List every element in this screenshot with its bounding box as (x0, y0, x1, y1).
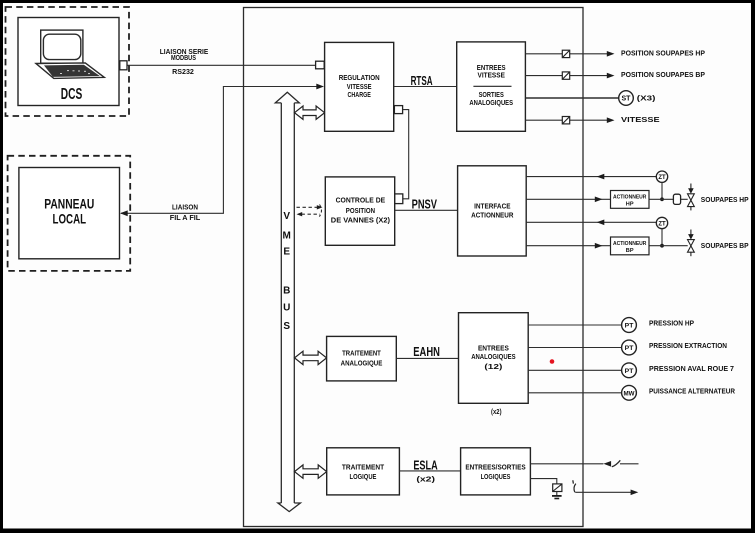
wire ST (x3) (525, 97, 618, 99)
svg-text:(x2): (x2) (416, 475, 436, 484)
wire PUISSANCE ALTERNATEUR (528, 392, 621, 394)
wire PNSV (395, 209, 458, 211)
svg-text:POSITION SOUPAPES BP: POSITION SOUPAPES BP (621, 70, 705, 79)
svg-text:PT: PT (625, 323, 635, 330)
enclosure PANNEAU LOCAL (dashed) (8, 156, 131, 271)
ground (556, 492, 558, 496)
connector tab REGULATION right (394, 106, 402, 114)
valve SOUPAPES HP (688, 184, 695, 211)
svg-text:POSITION: POSITION (346, 206, 375, 215)
svg-text:VITESSE: VITESSE (621, 115, 660, 124)
box TRAITEMENT LOGIQUE (327, 448, 400, 495)
svg-text:EAHN: EAHN (413, 344, 440, 359)
wire ZT BP drop (661, 229, 663, 246)
transmitter PT 3 (622, 363, 637, 378)
arrowhead into PANNEAU LOCAL (120, 210, 128, 216)
wire REGULATION tab to CONTROLE tab (403, 110, 409, 199)
label LIAISON SERIE MODBUS RS232 (160, 47, 209, 76)
bus link dashed arrows (to CONTROLE) (297, 205, 322, 217)
svg-text:SOUPAPES HP: SOUPAPES HP (701, 195, 749, 204)
wire ZT HP drop (661, 182, 663, 199)
box ENTREES VITESSE / SORTIES ANALOGIQUES (457, 42, 526, 131)
svg-text:ACTIONNEUR: ACTIONNEUR (613, 241, 647, 247)
valve SOUPAPES BP (688, 230, 695, 257)
svg-text:TRAITEMENT: TRAITEMENT (342, 463, 385, 472)
wire LIAISON FIL A FIL (121, 87, 317, 214)
svg-text:U: U (283, 302, 290, 313)
svg-text:PT: PT (625, 368, 635, 375)
wire actionneur BP (526, 245, 688, 247)
transmitter ZT HP (656, 171, 667, 182)
wire POSITION SOUPAPES BP (525, 75, 607, 77)
wire ZT HP feedback (526, 176, 656, 178)
wire logic output to relay (530, 479, 556, 484)
transmitter ZT BP (656, 217, 667, 228)
wire RTSA (394, 86, 457, 88)
svg-text:PANNEAU: PANNEAU (44, 197, 94, 212)
svg-text:DE VANNES (X2): DE VANNES (X2) (331, 216, 391, 225)
svg-text:ANALOGIQUES: ANALOGIQUES (469, 98, 513, 107)
svg-text:LOGIQUE: LOGIQUE (350, 472, 377, 481)
relay contact (572, 480, 575, 483)
wire PRESSION AVAL ROUE 7 (528, 369, 621, 371)
connector tab REGULATION left (316, 61, 325, 69)
wire ZT BP feedback (526, 221, 656, 223)
svg-text:DCS: DCS (61, 86, 83, 103)
svg-text:PRESSION AVAL ROUE 7: PRESSION AVAL ROUE 7 (649, 364, 734, 373)
transmitter ST (619, 91, 634, 106)
svg-text:ACTIONNEUR: ACTIONNEUR (613, 194, 647, 200)
wire POSITION SOUPAPES HP (525, 53, 607, 55)
svg-text:RS232: RS232 (172, 67, 194, 76)
box ENTREES ANALOGIQUES (12) (459, 313, 529, 404)
box TRAITEMENT ANALOGIQUE (327, 336, 397, 381)
isolator square 3 (562, 117, 569, 124)
box DCS (18, 18, 119, 106)
svg-text:ACTIONNEUR: ACTIONNEUR (471, 211, 514, 220)
svg-text:PNSV: PNSV (412, 197, 438, 212)
wire VITESSE (525, 119, 607, 121)
connector tab CONTROLE right (395, 194, 403, 204)
box ACTIONNEUR BP (611, 237, 650, 255)
svg-text:(12): (12) (484, 362, 503, 371)
wire EAHN (396, 357, 458, 359)
svg-text:VITESSE: VITESSE (478, 71, 506, 80)
box CONTROLE DE POSITION DE VANNES (325, 177, 394, 245)
main cabinet box (244, 8, 584, 527)
transmitter PT 1 (622, 318, 637, 333)
svg-text:ZT: ZT (658, 175, 666, 181)
isolator square 1 (562, 50, 569, 57)
svg-text:ESLA: ESLA (413, 457, 438, 472)
connector tab DCS (120, 61, 127, 70)
svg-text:POSITION SOUPAPES HP: POSITION SOUPAPES HP (621, 48, 705, 57)
box ACTIONNEUR HP (611, 191, 650, 209)
computer icon (36, 30, 104, 78)
VME bus arrow (275, 92, 300, 511)
svg-text:ANALOGIQUES: ANALOGIQUES (471, 352, 516, 361)
svg-text:PRESSION EXTRACTION: PRESSION EXTRACTION (649, 341, 727, 350)
svg-text:BP: BP (626, 248, 634, 254)
svg-text:RTSA: RTSA (411, 73, 433, 88)
arrowhead into REGULATION (316, 84, 324, 90)
box INTERFACE ACTIONNEUR (458, 166, 527, 256)
svg-text:PRESSION HP: PRESSION HP (649, 319, 694, 328)
svg-text:CONTROLE DE: CONTROLE DE (336, 196, 386, 205)
isolator square 2 (562, 72, 569, 79)
svg-text:REGULATION: REGULATION (339, 73, 380, 82)
wire ESLA (399, 470, 460, 472)
bus link double arrow (to TRAITEMENT LOGIQUE) (295, 465, 327, 478)
svg-text:LOGIQUES: LOGIQUES (481, 472, 511, 481)
junction BP (660, 244, 664, 248)
svg-text:ENTREES/SORTIES: ENTREES/SORTIES (465, 463, 525, 472)
svg-text:E: E (283, 247, 290, 258)
wire actionneur HP (526, 198, 688, 200)
divider line inside box (473, 85, 511, 87)
svg-text:ZT: ZT (658, 221, 666, 227)
wire PRESSION EXTRACTION (528, 347, 621, 349)
enclosure DCS (dashed) (6, 7, 130, 116)
svg-text:B: B (283, 286, 290, 297)
transmitter PT 2 (622, 340, 637, 355)
box REGULATION VITESSE CHARGE (325, 42, 394, 131)
svg-text:HP: HP (626, 202, 634, 208)
wire logic input (530, 463, 603, 465)
bus link double arrow (to TRAITEMENT ANALOGIQUE) (295, 351, 327, 364)
wire relay contact output (575, 491, 632, 493)
svg-text:M: M (283, 230, 291, 241)
svg-text:CHARGE: CHARGE (348, 90, 372, 99)
svg-text:S: S (283, 321, 290, 332)
bus link double arrow (to REGULATION) (295, 106, 325, 119)
svg-text:PUISSANCE ALTERNATEUR: PUISSANCE ALTERNATEUR (649, 386, 736, 395)
svg-text:V: V (283, 211, 290, 222)
box ENTREES/SORTIES LOGIQUES (461, 448, 531, 495)
svg-text:LIAISON: LIAISON (172, 203, 198, 212)
label VME BUS (283, 211, 291, 332)
svg-text:(x2): (x2) (491, 407, 502, 416)
transmitter MW (622, 385, 637, 400)
svg-text:PT: PT (625, 345, 635, 352)
svg-text:LOCAL: LOCAL (53, 212, 87, 227)
coupling on HP line (673, 194, 680, 204)
relay coil (553, 484, 562, 492)
svg-text:FIL A FIL: FIL A FIL (170, 213, 201, 222)
junction HP (660, 197, 664, 201)
svg-text:ANALOGIQUE: ANALOGIQUE (341, 358, 383, 367)
svg-text:MW: MW (624, 390, 635, 397)
svg-text:TRAITEMENT: TRAITEMENT (342, 349, 381, 358)
svg-text:(X3): (X3) (637, 94, 656, 103)
box PANNEAU LOCAL (19, 168, 120, 259)
svg-text:INTERFACE: INTERFACE (474, 202, 511, 211)
svg-text:ST: ST (622, 96, 632, 103)
svg-text:ENTREES: ENTREES (478, 343, 509, 352)
svg-text:MODBUS: MODBUS (171, 53, 196, 62)
red marker dot (550, 359, 555, 364)
svg-text:SOUPAPES BP: SOUPAPES BP (701, 241, 749, 250)
switch contact blade (612, 460, 621, 467)
wire PRESSION HP (528, 324, 621, 326)
label LIAISON FIL A FIL (170, 203, 201, 223)
wire LIAISON SERIE MODBUS (127, 64, 316, 66)
